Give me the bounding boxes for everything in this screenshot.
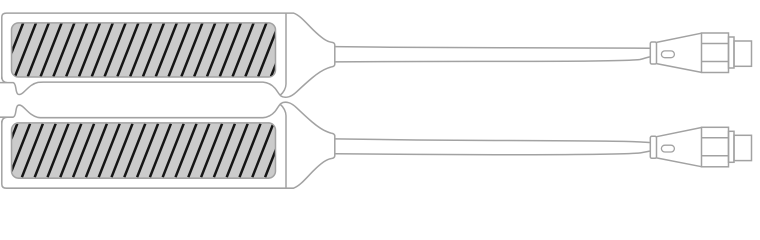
body right edge line mirrored [280, 104, 286, 188]
barrel bottom-conn [734, 135, 752, 160]
body right edge line [280, 13, 286, 95]
body bottom: stub, notch, flat, right foot, taper bottom [0, 67, 332, 97]
connector boot [650, 42, 656, 64]
pill slot bottom-conn [661, 145, 674, 152]
body top mirrored: stub, notch, flat, foot, taper [0, 102, 332, 133]
body outline: left edge, top edge, taper top [2, 13, 332, 79]
body divider 1 [702, 43, 729, 45]
hatch lines top [0, 23, 292, 77]
connector body bottom-conn [702, 127, 729, 167]
strain relief trapezoid bottom [657, 64, 702, 73]
cable bottom-adapter top line [335, 139, 651, 143]
strain relief trapezoid bottom bottom-conn [657, 158, 702, 167]
cable collar [332, 42, 335, 67]
cable bottom-adapter bottom line (sagging) [335, 151, 651, 155]
body outline mirrored: left edge, bottom edge, taper [2, 121, 332, 188]
inner hatch rect border [12, 23, 276, 77]
inner hatch rect border mirrored [12, 123, 276, 178]
pill slot [661, 51, 674, 58]
ring bottom-conn [729, 131, 735, 162]
cable bottom line (sagging) [335, 57, 651, 62]
cable top line [335, 47, 651, 49]
hatch lines bottom [0, 124, 299, 178]
connector boot bottom [650, 136, 656, 158]
barrel [734, 41, 752, 66]
body divider 1 bottom-conn [702, 137, 729, 139]
body divider 2 [702, 61, 729, 63]
strain relief trapezoid top bottom-conn [657, 128, 702, 137]
strain relief trapezoid top [657, 33, 702, 42]
body divider 2 bottom-conn [702, 155, 729, 157]
connector body [702, 33, 729, 73]
ring [729, 37, 735, 68]
cable collar mirrored [332, 133, 335, 158]
